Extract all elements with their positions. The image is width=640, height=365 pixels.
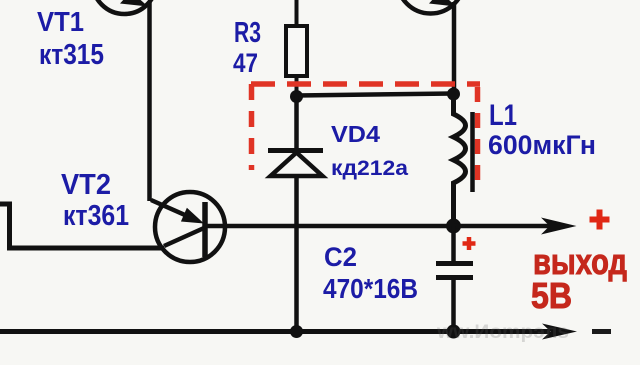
capacitor C2 <box>436 226 473 331</box>
node junction at R3/VD4 <box>290 90 303 103</box>
svg-text:600мкГн: 600мкГн <box>488 130 596 160</box>
label C2 polarity plus <box>463 237 476 250</box>
svg-text:ww.Иompэлs: ww.Иompэлs <box>436 322 569 343</box>
wire junction R3 to L1 top <box>297 94 454 96</box>
label output minus <box>592 329 611 334</box>
diode VD4 <box>268 96 323 331</box>
svg-text:R3: R3 <box>234 17 261 49</box>
svg-text:кд212а: кд212а <box>331 156 409 180</box>
red dashed highlight box <box>251 84 480 181</box>
svg-text:470*16В: 470*16В <box>323 273 418 304</box>
transistor top-right (partially visible) <box>397 0 464 14</box>
label output plus <box>590 210 610 230</box>
svg-text:47: 47 <box>233 48 258 78</box>
resistor R3 <box>286 0 307 96</box>
wire output plus with arrow <box>454 218 577 235</box>
svg-text:кт315: кт315 <box>39 39 104 71</box>
svg-text:5В: 5В <box>531 275 572 316</box>
transistor VT1 (top left, partially visible) <box>92 0 156 14</box>
node output junction <box>446 219 461 234</box>
transistor VT2 <box>151 192 225 262</box>
svg-text:C2: C2 <box>324 242 357 272</box>
svg-text:VD4: VD4 <box>331 121 380 147</box>
svg-text:кт361: кт361 <box>63 200 129 232</box>
wire top-right transistor emitter lead <box>452 2 457 94</box>
node junction at L1 top <box>447 88 460 101</box>
wire bottom rail with arrow <box>0 324 577 340</box>
wire VT2 base to output node <box>205 224 454 229</box>
node bottom junction C2 <box>447 325 461 339</box>
svg-text:VT2: VT2 <box>61 169 111 201</box>
svg-text:L1: L1 <box>489 99 517 132</box>
wire left input bend to VT2 collector <box>0 204 164 248</box>
inductor L1 <box>454 94 473 222</box>
wire VT1 emitter lead down to VT2 <box>147 2 152 201</box>
node bottom junction VD4 <box>290 325 303 338</box>
svg-text:VT1: VT1 <box>37 6 84 37</box>
